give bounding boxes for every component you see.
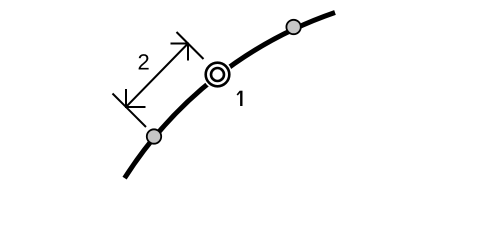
dimension line between ticks — [126, 44, 188, 108]
arrowhead barbs at lower-left end — [126, 89, 146, 107]
selected point symbol: outer circle — [206, 63, 230, 87]
station point marker (gray dot, lower) — [147, 129, 161, 143]
arrowhead barbs at upper-right end — [171, 44, 189, 61]
label 1 (selected point): stem — [240, 91, 242, 106]
road curve (thick arc polyline) — [125, 13, 335, 179]
svg-text:2: 2 — [138, 50, 150, 75]
dimension tick at end point (upper-right oblique slash) — [177, 32, 204, 59]
selected point symbol: white halo mask — [203, 60, 233, 90]
label 1 (selected point): flag — [237, 91, 240, 95]
dimension tick at start point (lower-left oblique slash) — [113, 94, 147, 128]
selected point symbol: inner circle — [211, 68, 224, 81]
station point marker (gray dot, upper) — [286, 20, 300, 34]
